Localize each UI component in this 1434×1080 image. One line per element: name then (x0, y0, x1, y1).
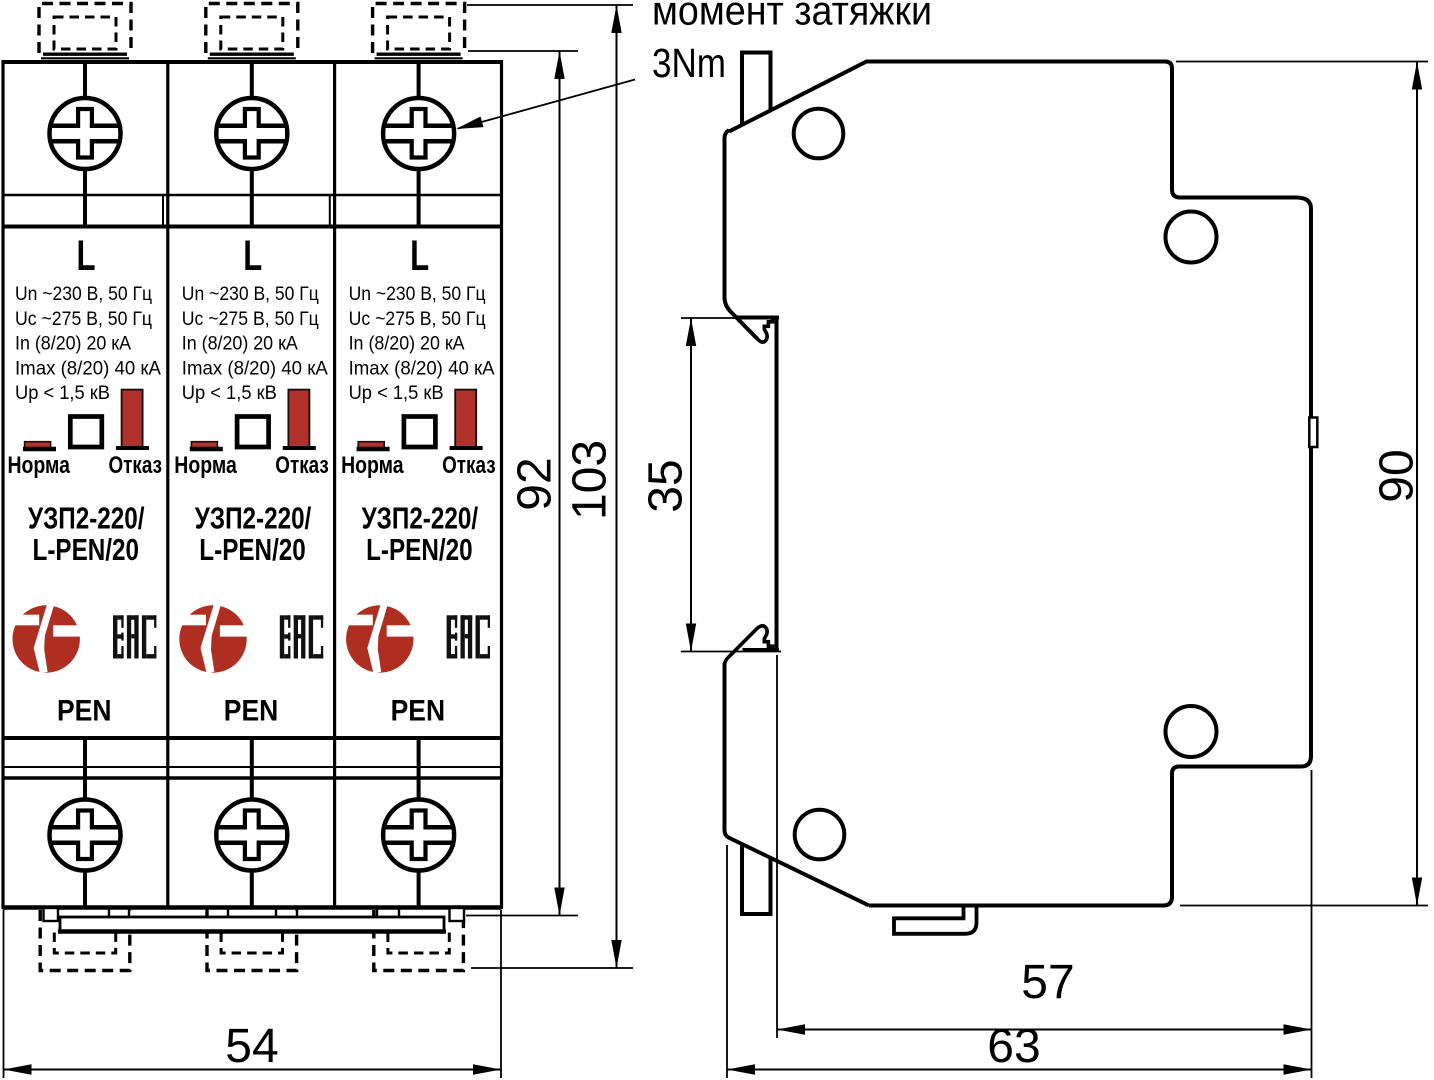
module 3 indicator Отказ bar (455, 390, 476, 448)
svg-text:In (8/20) 20 кА: In (8/20) 20 кА (15, 334, 131, 355)
module 1 centre line bottom (83, 738, 87, 908)
dimension line 92 (559, 51, 561, 916)
dimension 63 extension line (726, 845, 728, 1078)
bottom mounting plate (44, 908, 465, 932)
svg-text:Uc ~275 В, 50 Гц: Uc ~275 В, 50 Гц (182, 309, 319, 330)
horizontal panel separation lines (3, 195, 502, 778)
module 2 top screw (216, 98, 287, 169)
svg-text:90: 90 (1371, 449, 1424, 502)
svg-text:In (8/20) 20 кА: In (8/20) 20 кА (182, 334, 298, 355)
dimension line 63 (727, 1069, 1312, 1071)
svg-text:Отказ: Отказ (442, 452, 496, 479)
svg-text:Uc ~275 В, 50 Гц: Uc ~275 В, 50 Гц (349, 309, 486, 330)
module 1 indicator Отказ bar (122, 390, 143, 448)
svg-text:Норма: Норма (341, 452, 404, 479)
svg-text:PEN: PEN (57, 695, 112, 728)
small latch nub on right edge (1309, 418, 1317, 448)
svg-text:УЗП2-220/: УЗП2-220/ (195, 501, 312, 536)
svg-text:Un ~230 В, 50 Гц: Un ~230 В, 50 Гц (349, 284, 486, 305)
svg-text:57: 57 (1021, 956, 1074, 1009)
module 2 centre line bottom (250, 738, 254, 908)
module 2 indicator Отказ bar (288, 390, 309, 448)
dimension line 90 (1416, 62, 1418, 906)
svg-text:Imax (8/20) 40 кА: Imax (8/20) 40 кА (349, 358, 495, 379)
module 3 bottom terminal cage (dashed) (374, 910, 464, 971)
svg-text:Un ~230 В, 50 Гц: Un ~230 В, 50 Гц (182, 284, 319, 305)
svg-text:момент затяжки: момент затяжки (652, 0, 932, 34)
DIN rail upper strip (742, 53, 771, 125)
leader line to screw (458, 80, 635, 129)
dimension line 54 (4, 1069, 502, 1071)
module 2 top terminal cage (dashed) (206, 4, 298, 59)
module 1 EAC mark (113, 615, 156, 658)
svg-text:103: 103 (564, 440, 617, 520)
svg-text:Норма: Норма (8, 452, 71, 479)
dimension 35 extension lines (681, 318, 781, 652)
dimension 103 extension lines (467, 5, 633, 968)
front view: module body outline (3, 60, 502, 909)
DIN rail lower strip (742, 845, 771, 914)
module 3 centre line top (417, 62, 421, 227)
mounting hole bottom-right (1166, 706, 1217, 757)
svg-text:L-PEN/20: L-PEN/20 (33, 532, 140, 567)
svg-text:Uc ~275 В, 50 Гц: Uc ~275 В, 50 Гц (15, 309, 152, 330)
module 3 bottom screw (383, 800, 454, 871)
svg-text:Un ~230 В, 50 Гц: Un ~230 В, 50 Гц (15, 284, 152, 305)
module 3 top terminal plate (377, 53, 461, 56)
dimension line 103 (616, 5, 618, 968)
upper DIN hook (756, 318, 773, 342)
side view body outline right part (729, 62, 1311, 906)
module 2 indicator window (237, 417, 269, 448)
mounting hole bottom-left (795, 810, 845, 860)
module 3 indicator Норма bar (358, 442, 384, 448)
dimension 54 extension lines (4, 908, 502, 1078)
svg-text:L-PEN/20: L-PEN/20 (366, 532, 473, 567)
mounting hole top-right (1166, 212, 1217, 263)
module 3 centre line bottom (417, 738, 421, 908)
module 3 EAC mark (447, 615, 490, 658)
svg-text:Imax (8/20) 40 кА: Imax (8/20) 40 кА (15, 358, 161, 379)
module 2 centre line top (250, 62, 254, 227)
module 1 indicator window (70, 417, 102, 448)
module 2 bottom screw (216, 800, 287, 871)
svg-text:Up < 1,5 кВ: Up < 1,5 кВ (349, 383, 444, 404)
module 3 spec text (349, 284, 495, 404)
svg-text:PEN: PEN (391, 695, 446, 728)
svg-text:L: L (77, 232, 96, 280)
svg-text:Up < 1,5 кВ: Up < 1,5 кВ (15, 383, 110, 404)
module 2 manufacturer logo (174, 604, 248, 674)
dimension 57 extension lines (777, 655, 1312, 1078)
svg-text:3Nm: 3Nm (652, 40, 726, 86)
module 1 top terminal cage (dashed) (39, 4, 131, 59)
module 3 indicator window (404, 417, 436, 448)
svg-text:Отказ: Отказ (275, 452, 329, 479)
module 1 top terminal plate (43, 53, 127, 56)
module 2 indicator Норма bar (191, 442, 217, 448)
svg-text:35: 35 (640, 459, 693, 512)
bottom plate tabs (109, 909, 399, 918)
module 1 indicator Норма bar (25, 442, 51, 448)
svg-text:Up < 1,5 кВ: Up < 1,5 кВ (182, 383, 277, 404)
svg-text:L-PEN/20: L-PEN/20 (199, 532, 305, 567)
dimension line 57 (777, 1029, 1312, 1031)
mounting hole top-left (794, 109, 844, 159)
svg-text:In (8/20) 20 кА: In (8/20) 20 кА (349, 334, 465, 355)
svg-text:54: 54 (225, 1020, 278, 1073)
lower DIN hook (725, 626, 773, 665)
module divider lines (168, 62, 335, 908)
module 3 top screw (383, 98, 454, 169)
svg-text:Imax (8/20) 40 кА: Imax (8/20) 40 кА (182, 358, 328, 379)
module 1 manufacturer logo (7, 604, 81, 674)
module 2 EAC mark (280, 615, 323, 658)
svg-text:Отказ: Отказ (109, 452, 163, 479)
svg-text:92: 92 (509, 457, 562, 510)
svg-text:PEN: PEN (224, 695, 278, 728)
module 1 spec text (15, 284, 161, 404)
module 1 bottom screw (50, 800, 121, 871)
side view left edge lower (725, 663, 870, 906)
module 1 top screw (50, 98, 121, 169)
svg-text:L: L (410, 232, 429, 280)
module 3 top terminal cage (dashed) (373, 4, 465, 59)
dimension 92 extension lines (466, 51, 578, 916)
dimension 90 extension lines (1176, 62, 1428, 906)
bottom release clip (894, 908, 977, 934)
module 1 centre line top (83, 62, 87, 227)
dimension line 35 (690, 318, 692, 652)
module 2 bottom terminal cage (dashed) (207, 910, 297, 971)
svg-text:Норма: Норма (174, 452, 237, 479)
module 3 manufacturer logo (340, 604, 414, 674)
side view left edge upper (725, 130, 758, 339)
svg-text:УЗП2-220/: УЗП2-220/ (362, 501, 479, 536)
rail mounting surface (775, 318, 779, 651)
svg-text:L: L (243, 232, 262, 280)
svg-text:УЗП2-220/: УЗП2-220/ (28, 501, 145, 536)
module 1 bottom terminal cage (dashed) (40, 910, 130, 971)
svg-text:63: 63 (987, 1020, 1040, 1073)
module 2 spec text (182, 284, 328, 404)
module 2 top terminal plate (210, 53, 294, 56)
